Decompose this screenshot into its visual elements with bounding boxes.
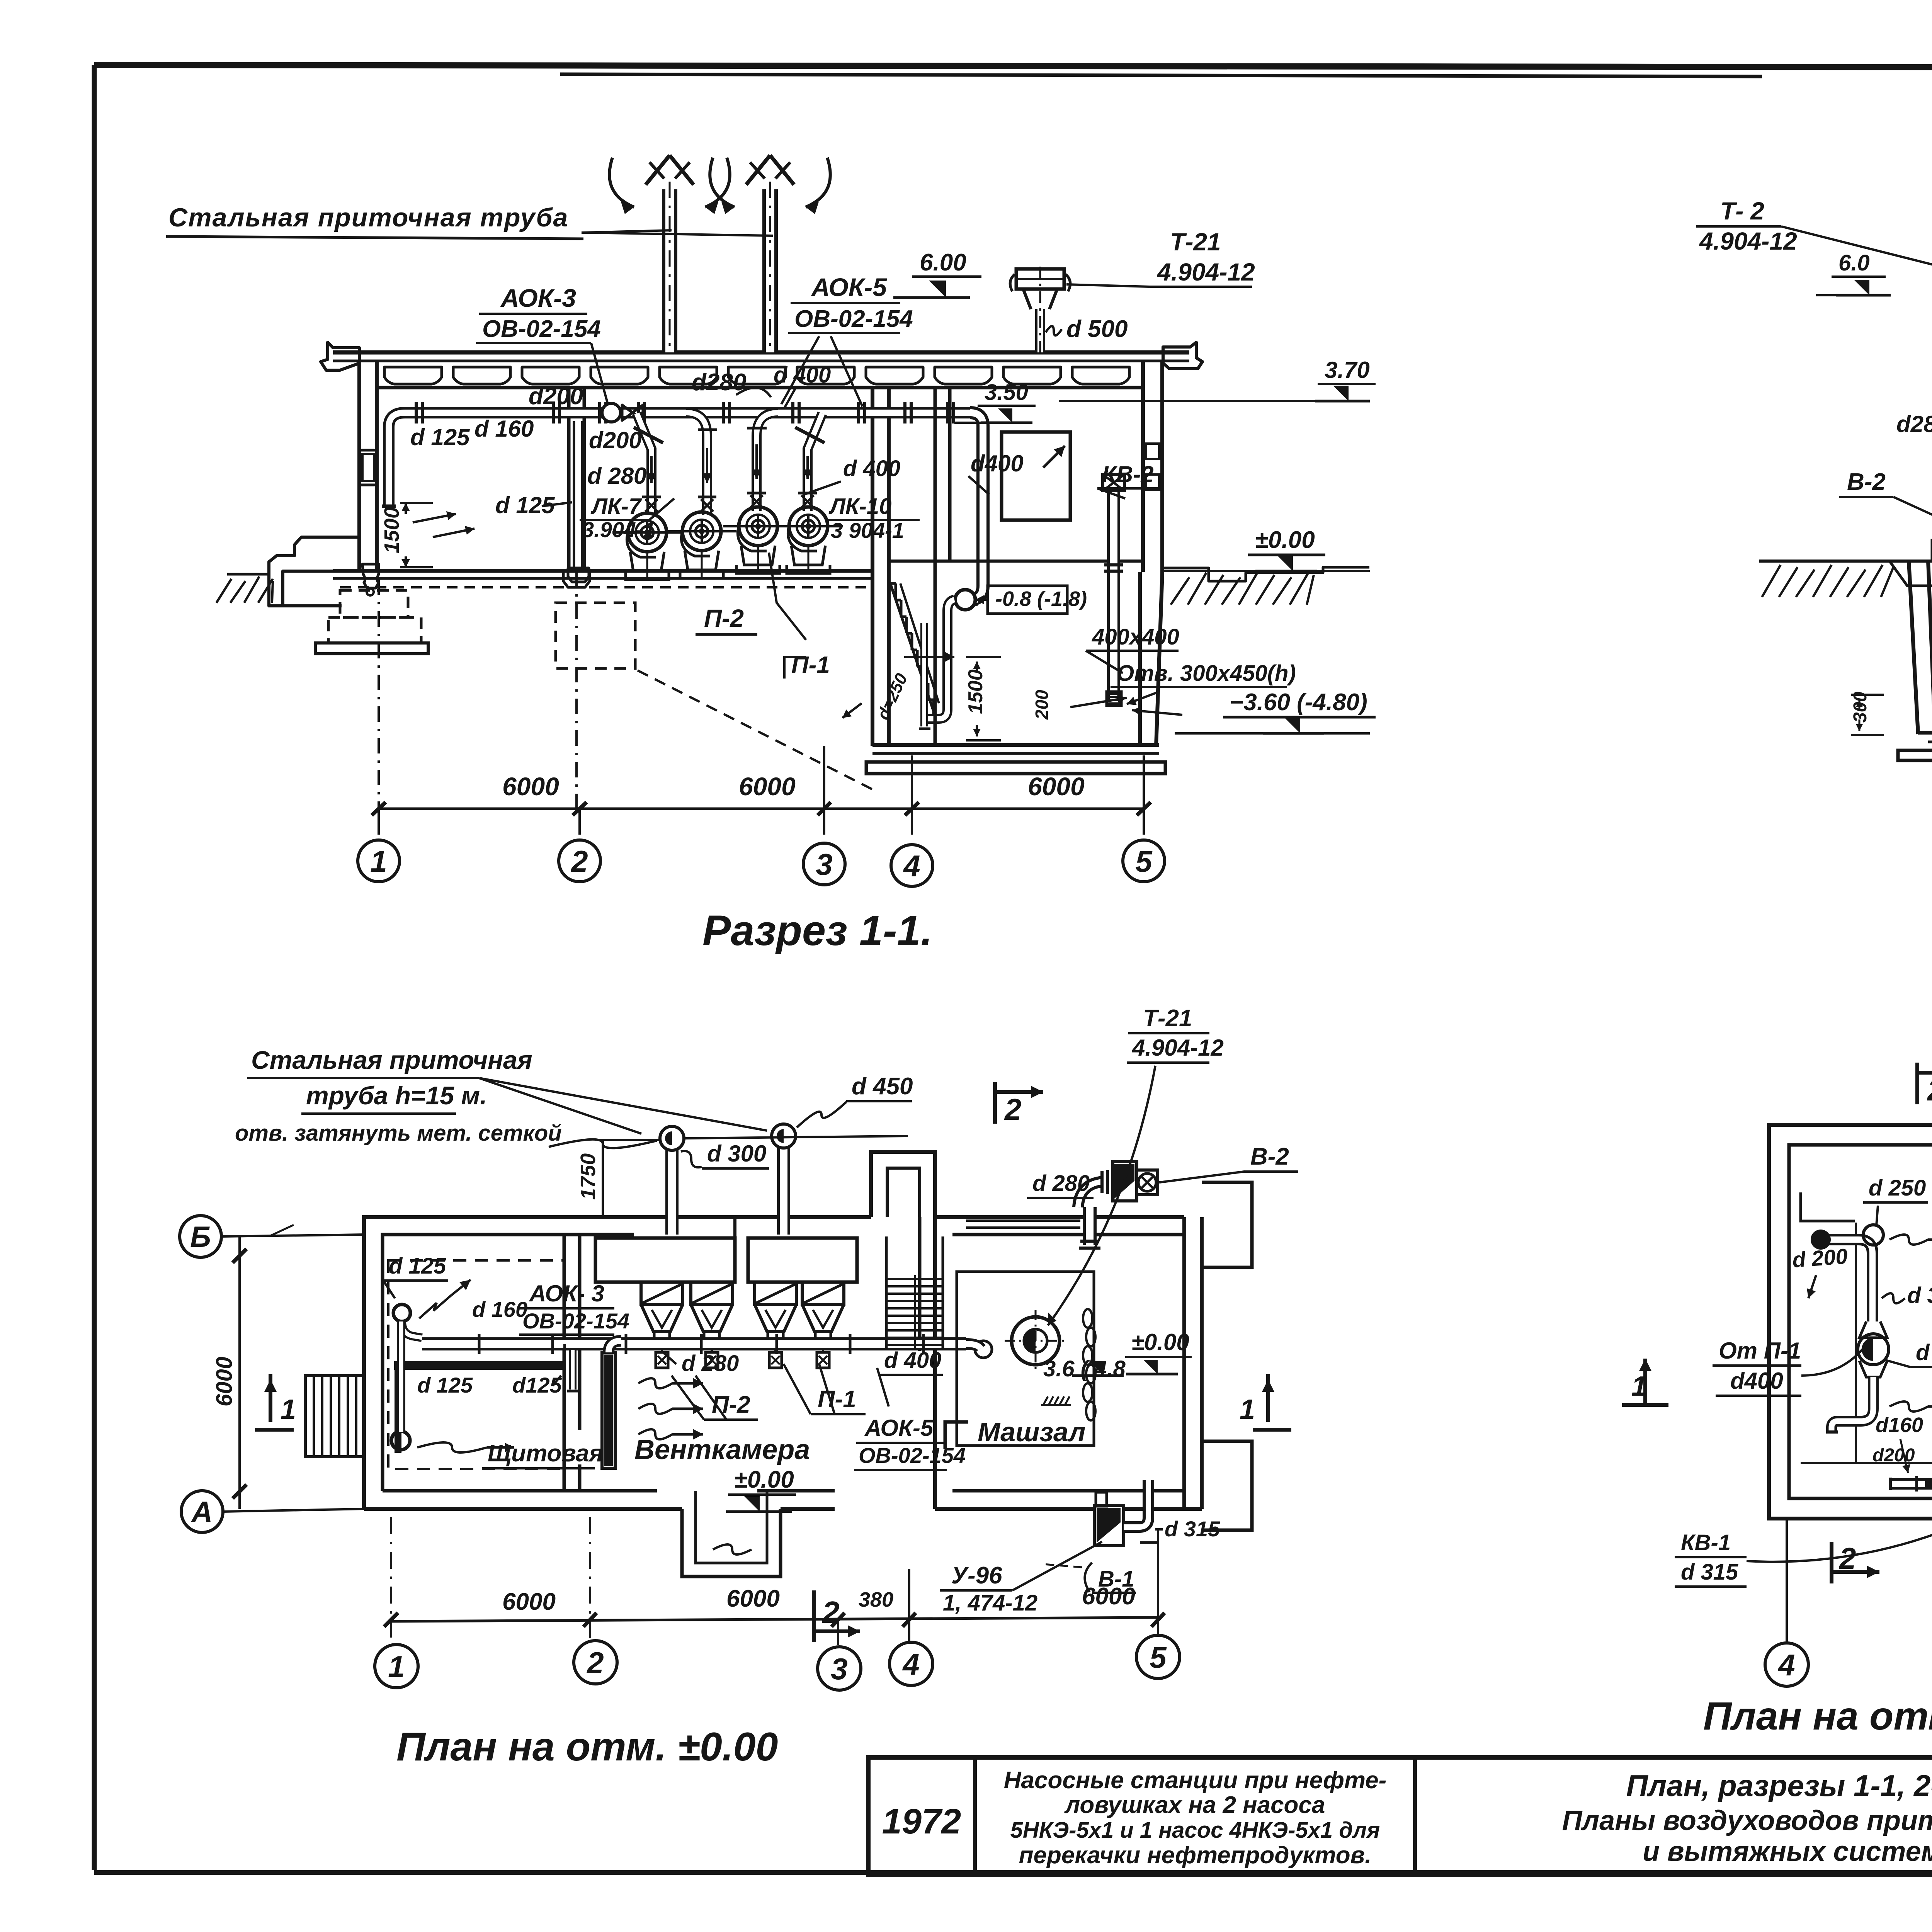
- main pipe header d160-d200: [389, 413, 974, 506]
- pit stairs: [890, 582, 896, 585]
- svg-text:1: 1: [370, 844, 387, 878]
- svg-text:ЛК-10: ЛК-10: [828, 494, 891, 519]
- big pipe d400 riser: [969, 413, 983, 600]
- svg-text:3 904-1: 3 904-1: [831, 518, 904, 543]
- pipe d250 in pit stair: [920, 623, 928, 726]
- svg-text:4.904-12: 4.904-12: [1156, 258, 1255, 286]
- svg-text:2: 2: [1004, 1092, 1021, 1126]
- pit base plate: [866, 762, 1165, 774]
- bottom wall main: [364, 1507, 682, 1511]
- hall floor line: [333, 569, 874, 573]
- valve bowtie: [622, 405, 643, 420]
- svg-text:ОВ-02-154: ОВ-02-154: [482, 316, 601, 342]
- svg-text:Щитовая: Щитовая: [488, 1440, 603, 1467]
- svg-text:d 400: d 400: [843, 456, 900, 481]
- section mark 2 bottom p2: [1830, 1542, 1833, 1583]
- svg-text:отв. затянуть мет. сеткой: отв. затянуть мет. сеткой: [235, 1121, 562, 1146]
- svg-text:ловушках на 2 насоса: ловушках на 2 насоса: [1064, 1792, 1325, 1818]
- svg-text:-0.8 (-1.8): -0.8 (-1.8): [995, 587, 1087, 611]
- svg-text:d200: d200: [589, 427, 642, 453]
- stair tower walls: [871, 1152, 935, 1217]
- svg-text:АОК-3: АОК-3: [500, 284, 576, 312]
- svg-text:П-2: П-2: [712, 1391, 750, 1418]
- svg-text:Планы воздуховодов приточных: Планы воздуховодов приточных: [1562, 1805, 1932, 1836]
- inner partition shchitovaya: [563, 1235, 566, 1491]
- svg-text:Насосные станции при нефте-: Насосные станции при нефте-: [1004, 1767, 1387, 1794]
- B-2 unit plan top right: [1078, 1182, 1103, 1207]
- svg-text:и вытяжных систем.: и вытяжных систем.: [1643, 1836, 1932, 1867]
- left riser opening: [382, 505, 396, 508]
- plenum room A: [595, 1238, 735, 1282]
- pit right wall: [1138, 572, 1142, 746]
- svg-text:1500: 1500: [380, 507, 403, 553]
- svg-text:1750: 1750: [577, 1153, 600, 1200]
- ground left: [1759, 560, 1932, 563]
- svg-text:d400: d400: [1730, 1368, 1783, 1394]
- pit floor: [872, 743, 1159, 747]
- dashed inner room: [388, 1260, 565, 1469]
- svg-text:d 280: d 280: [1032, 1171, 1090, 1196]
- svg-text:6000: 6000: [502, 1588, 556, 1615]
- svg-text:4.904-12: 4.904-12: [1699, 227, 1797, 255]
- svg-text:1: 1: [281, 1394, 296, 1425]
- svg-text:5: 5: [1135, 844, 1153, 878]
- cyclone funnels: [641, 1282, 683, 1304]
- left foundation pedestal: [340, 590, 408, 617]
- section mark 1 left: [269, 1374, 272, 1422]
- pit base plate: [1898, 750, 1932, 760]
- main block outer walls: [364, 1217, 871, 1509]
- roof right cornice: [1163, 342, 1202, 369]
- right upper alcove: [1202, 1182, 1252, 1267]
- svg-text:−3.60 (-4.80): −3.60 (-4.80): [1230, 689, 1367, 716]
- svg-text:d280: d280: [692, 369, 746, 396]
- svg-text:d 125: d 125: [389, 1253, 446, 1279]
- flow arrows: [1889, 1235, 1928, 1245]
- pit squiggle arrows: [904, 656, 954, 658]
- hall upper floor line over pit: [889, 560, 1143, 563]
- svg-text:d 250: d 250: [1869, 1175, 1926, 1201]
- svg-text:d 125: d 125: [410, 424, 470, 450]
- svg-text:6.0: 6.0: [1838, 250, 1870, 276]
- svg-text:2: 2: [570, 844, 588, 878]
- mashzal pit outline: [957, 1272, 1094, 1446]
- section mark 2 top: [993, 1082, 997, 1124]
- svg-text:d 315: d 315: [1165, 1517, 1220, 1541]
- pit left wall grid3-4: [871, 388, 874, 746]
- svg-text:3.70: 3.70: [1325, 357, 1370, 383]
- svg-text:1: 1: [1240, 1394, 1255, 1425]
- chimney pipes on roof: [662, 189, 677, 352]
- svg-text:Машзал: Машзал: [978, 1417, 1085, 1447]
- svg-text:200: 200: [1032, 690, 1052, 720]
- ventkamera supply duct: [602, 1352, 615, 1468]
- pump drop pipe 3 elbow: [757, 413, 778, 511]
- dim 1750: [602, 1140, 604, 1217]
- KV-2 flanges: [1104, 563, 1123, 566]
- svg-text:4: 4: [903, 849, 920, 883]
- svg-text:Б: Б: [190, 1221, 211, 1253]
- ventkamera arrows: [638, 1378, 672, 1388]
- B-1 unit plan bottom right: [1094, 1505, 1124, 1546]
- roof left cornice: [321, 342, 359, 370]
- svg-text:1500: 1500: [964, 669, 987, 714]
- svg-text:Стальная приточная труба: Стальная приточная труба: [168, 203, 568, 232]
- riser d200 foot: [568, 568, 589, 582]
- riser d200 at col2: [573, 421, 583, 568]
- plan 0.00 group: [180, 1005, 1298, 1769]
- thin inner line: [1855, 1223, 1857, 1463]
- svg-text:П-2: П-2: [704, 604, 744, 632]
- plan grid circle A: [181, 1491, 223, 1532]
- svg-text:d 160: d 160: [472, 1297, 527, 1321]
- leader from tube note to chimneys: [582, 230, 672, 233]
- svg-text:АОК-5: АОК-5: [864, 1415, 934, 1441]
- KV-2 top hood: [1103, 474, 1124, 491]
- pump room floor band: [634, 569, 874, 573]
- svg-text:d125: d125: [512, 1373, 562, 1397]
- svg-text:АОК- 3: АОК- 3: [529, 1281, 604, 1306]
- svg-text:1: 1: [1631, 1371, 1647, 1402]
- svg-text:d 500: d 500: [1066, 316, 1128, 342]
- bottom duct -3.60: [1890, 1478, 1932, 1490]
- section 1-1 group: [166, 155, 1376, 954]
- svg-text:6000: 6000: [726, 1585, 780, 1612]
- stairwell right wall: [934, 388, 937, 745]
- vertical dim 6000 left: [238, 1236, 241, 1509]
- svg-text:4: 4: [1777, 1648, 1795, 1682]
- ceiling coffer panels: [384, 367, 442, 384]
- svg-text:В-2: В-2: [1847, 469, 1886, 495]
- svg-text:d200: d200: [1872, 1445, 1915, 1466]
- B-2 riser through wall: [1083, 1207, 1097, 1245]
- svg-text:±0.00: ±0.00: [1131, 1329, 1189, 1355]
- svg-text:1: 1: [388, 1650, 405, 1684]
- svg-text:Т- 2: Т- 2: [1720, 197, 1764, 225]
- chain in mashzal: [1083, 1309, 1092, 1328]
- svg-text:Отв. 300х450(h): Отв. 300х450(h): [1117, 661, 1296, 686]
- svg-text:КВ-1: КВ-1: [1681, 1530, 1731, 1555]
- right wall: [1141, 361, 1145, 572]
- svg-text:КВ-2: КВ-2: [1102, 461, 1154, 487]
- svg-text:План на отм. −3.60 (-4.80).: План на отм. −3.60 (-4.80).: [1703, 1694, 1932, 1738]
- pumps: [628, 513, 667, 552]
- svg-text:5НКЭ-5х1 и 1 насос 4НКЭ-5х1 дл: 5НКЭ-5х1 и 1 насос 4НКЭ-5х1 для: [1010, 1818, 1380, 1843]
- ground line right of pit: [1162, 567, 1369, 581]
- fan KV plan: [1859, 1321, 1887, 1338]
- svg-text:5: 5: [1150, 1640, 1167, 1674]
- sheet border frame: [94, 65, 1932, 68]
- section mark 1 left p2: [1622, 1403, 1668, 1407]
- svg-text:6000: 6000: [212, 1357, 237, 1406]
- svg-text:труба h=15 м.: труба h=15 м.: [306, 1081, 487, 1110]
- plan grid circle B: [180, 1216, 221, 1257]
- roof slab top chords: [333, 350, 1189, 355]
- svg-text:d 125: d 125: [417, 1373, 473, 1397]
- extension lines to building: [378, 580, 380, 809]
- svg-text:Т-21: Т-21: [1170, 228, 1221, 256]
- svg-text:План, разрезы 1-1, 2-2.: План, разрезы 1-1, 2-2.: [1626, 1769, 1932, 1803]
- svg-text:А: А: [191, 1496, 213, 1529]
- left wall column shoe: [362, 564, 379, 588]
- svg-text:ОВ-02-154: ОВ-02-154: [794, 306, 913, 332]
- inner wall rect: [1789, 1145, 1932, 1498]
- mashzal T-21 circle: [1012, 1317, 1060, 1365]
- plan grid circles bottom: [375, 1645, 418, 1688]
- svg-text:ОВ-02-154: ОВ-02-154: [859, 1443, 966, 1468]
- svg-text:ОВ-02-154: ОВ-02-154: [522, 1309, 629, 1333]
- svg-text:1, 474-12: 1, 474-12: [943, 1590, 1037, 1616]
- right d125 drop: [569, 1350, 577, 1389]
- label d500: [1046, 326, 1062, 335]
- svg-text:Т-21: Т-21: [1143, 1005, 1192, 1032]
- svg-text:План на отм. ±0.00: План на отм. ±0.00: [396, 1725, 778, 1769]
- svg-text:d200: d200: [529, 383, 583, 410]
- svg-text:d 280: d 280: [682, 1351, 739, 1376]
- basement dashed foundation under col2: [556, 603, 635, 668]
- bottom vestibule: [682, 1509, 781, 1577]
- ground hatch left of building: [227, 573, 270, 576]
- left outside entrance slab: [269, 537, 360, 606]
- svg-text:d 160: d 160: [474, 416, 534, 442]
- svg-text:ЛК-7: ЛК-7: [590, 494, 642, 519]
- duct flanges plan: [478, 1334, 481, 1354]
- label -0.8 boxed: [988, 586, 1067, 614]
- stairs tower rungs: [886, 1278, 943, 1280]
- svg-text:1972: 1972: [882, 1802, 961, 1841]
- plan -3.60 group: [1622, 1063, 1932, 1738]
- pipe drop left with flange: [391, 1431, 410, 1450]
- svg-text:3: 3: [816, 847, 832, 881]
- pipe assembly plan -3.60: [1821, 1240, 1872, 1321]
- svg-text:3.6 ( 4.8: 3.6 ( 4.8: [1043, 1356, 1126, 1381]
- machine hall outer: [935, 1215, 1184, 1219]
- grid circles 1..5: [358, 840, 400, 882]
- svg-text:У-96: У-96: [951, 1562, 1002, 1589]
- dashed leader to 6000: [638, 670, 876, 791]
- intake pipes to plan: [665, 1150, 679, 1235]
- svg-text:d 315: d 315: [1916, 1340, 1932, 1365]
- svg-text:d400: d400: [971, 451, 1024, 476]
- d280 duct along hall top wall: [966, 1219, 1080, 1229]
- svg-text:6000: 6000: [739, 772, 796, 801]
- header valve circle: [602, 403, 621, 422]
- pit floor: [1918, 731, 1932, 735]
- pipe into pit: [926, 600, 954, 719]
- svg-text:d 315: d 315: [1681, 1560, 1738, 1585]
- svg-text:АОК-5: АОК-5: [811, 273, 887, 301]
- svg-text:2: 2: [821, 1595, 840, 1629]
- KV-2 bottom grille: [1107, 692, 1121, 706]
- svg-text:d280: d280: [1896, 411, 1932, 437]
- svg-text:380: 380: [859, 1588, 893, 1611]
- svg-text:Разрез 1-1.: Разрез 1-1.: [702, 907, 932, 954]
- svg-text:2: 2: [1838, 1541, 1856, 1575]
- inner wall stub top-left: [1801, 1192, 1855, 1221]
- thick pipe bar shchitovaya: [394, 1361, 566, 1370]
- grid circle 4 p2: [1765, 1643, 1808, 1686]
- intake circle right: [772, 1124, 796, 1148]
- pump drop pipe 1 diagonal: [637, 413, 651, 515]
- svg-text:±0.00: ±0.00: [734, 1466, 794, 1493]
- dim line section1-1: [377, 808, 1145, 810]
- hatch ticks mashzal: [1043, 1396, 1048, 1405]
- svg-text:d 400: d 400: [884, 1348, 941, 1373]
- duct end cap right: [975, 1341, 992, 1358]
- section mark 1 right: [1266, 1374, 1270, 1422]
- svg-text:6000: 6000: [1028, 772, 1085, 801]
- svg-text:6000: 6000: [1082, 1583, 1135, 1610]
- svg-text:d 315: d 315: [1907, 1283, 1932, 1308]
- middle column grid2: [567, 388, 571, 571]
- KV-2 duct: [1107, 490, 1120, 700]
- svg-text:±0.00: ±0.00: [1255, 527, 1315, 553]
- pump drop pipe 4 diagonal: [808, 413, 822, 511]
- svg-text:2: 2: [586, 1646, 604, 1680]
- d400 valve: [955, 590, 975, 610]
- left room pipe d125: [402, 1321, 422, 1338]
- top wall segment over plenums: [634, 1215, 871, 1219]
- svg-text:2: 2: [1927, 1073, 1932, 1107]
- outer wall rect: [1769, 1125, 1932, 1519]
- svg-text:d 280: d 280: [587, 463, 646, 489]
- section 2-2 group: [1696, 196, 1932, 947]
- svg-text:d 200: d 200: [1791, 1244, 1848, 1272]
- floor slab dashed edge: [340, 586, 874, 588]
- header flanges: [415, 402, 418, 423]
- svg-text:перекачки нефтепродуктов.: перекачки нефтепродуктов.: [1019, 1842, 1372, 1869]
- svg-text:Стальная приточная: Стальная приточная: [251, 1046, 532, 1074]
- wall between tower and hall: [918, 1217, 922, 1351]
- svg-text:В-2: В-2: [1250, 1143, 1289, 1170]
- svg-text:6000: 6000: [502, 772, 559, 801]
- right lower alcove: [1202, 1441, 1252, 1530]
- svg-text:400х400: 400х400: [1092, 624, 1179, 650]
- svg-text:4.904-12: 4.904-12: [1132, 1035, 1224, 1061]
- pit walls: [1909, 561, 1918, 734]
- svg-text:6.00: 6.00: [920, 249, 966, 276]
- svg-text:3: 3: [831, 1652, 847, 1686]
- svg-text:П-1: П-1: [818, 1386, 856, 1413]
- svg-text:От П-1: От П-1: [1719, 1338, 1801, 1364]
- deflector T-21 on roof: [1035, 309, 1045, 352]
- pump drop pipe 2 elbow: [686, 413, 707, 515]
- plenum room B: [748, 1238, 857, 1282]
- pit inner wall lines: [888, 572, 890, 745]
- svg-text:d 450: d 450: [852, 1073, 913, 1100]
- svg-text:3.50: 3.50: [985, 380, 1028, 405]
- bottom dim line plan: [391, 1617, 1158, 1621]
- main duct horizontal: [422, 1337, 966, 1350]
- title block column lines: [973, 1757, 977, 1875]
- left wall column: [357, 361, 361, 572]
- svg-text:Венткамера: Венткамера: [634, 1434, 810, 1465]
- ceiling line: [377, 386, 1143, 389]
- arrows in left room: [419, 1295, 451, 1318]
- section mark 2 top p2: [1915, 1063, 1919, 1104]
- section mark 2 bottom: [812, 1590, 816, 1642]
- title block frame: [868, 1757, 1932, 1875]
- intake circle left: [660, 1126, 684, 1150]
- hall equipment box: [1002, 432, 1070, 520]
- column grid2 base: [563, 571, 590, 587]
- svg-text:d 300: d 300: [707, 1141, 766, 1167]
- svg-text:d160: d160: [1876, 1413, 1923, 1437]
- svg-text:4: 4: [902, 1647, 919, 1681]
- entrance porch left: [305, 1376, 364, 1457]
